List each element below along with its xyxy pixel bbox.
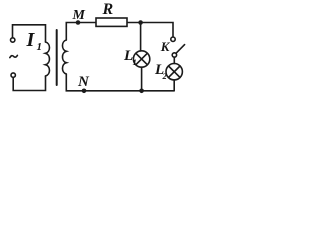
svg-text:1: 1	[37, 41, 43, 53]
svg-text:1: 1	[133, 57, 137, 67]
svg-text:N: N	[77, 74, 90, 90]
svg-text:M: M	[72, 8, 86, 23]
svg-text:R: R	[102, 1, 114, 18]
svg-text:2: 2	[162, 71, 168, 81]
svg-text:I: I	[26, 29, 36, 51]
svg-text:K: K	[160, 39, 171, 54]
